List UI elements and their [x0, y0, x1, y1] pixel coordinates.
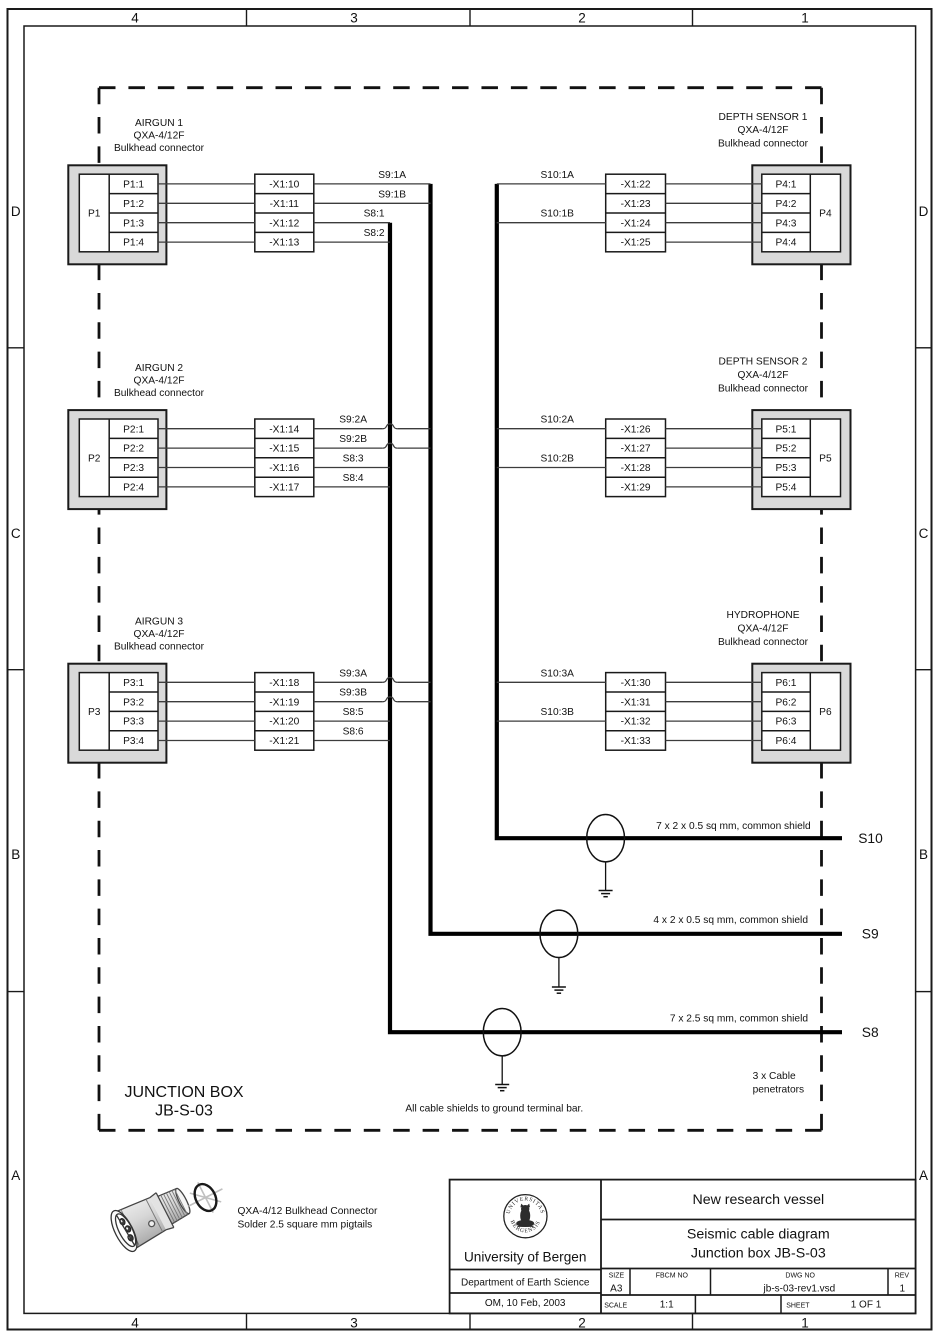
svg-text:3: 3 — [350, 1315, 358, 1330]
svg-text:DEPTH SENSOR 2: DEPTH SENSOR 2 — [719, 357, 808, 368]
svg-text:B: B — [919, 847, 928, 862]
svg-text:1: 1 — [900, 1283, 906, 1294]
svg-text:P3:4: P3:4 — [123, 736, 144, 747]
svg-text:4: 4 — [131, 1315, 139, 1330]
svg-text:S10:3B: S10:3B — [541, 707, 575, 718]
svg-text:P6:3: P6:3 — [776, 717, 797, 728]
svg-text:University of Bergen: University of Bergen — [464, 1250, 586, 1265]
svg-text:P6:4: P6:4 — [776, 736, 797, 747]
svg-text:S8:2: S8:2 — [364, 228, 385, 239]
svg-text:AIRGUN 1: AIRGUN 1 — [135, 118, 183, 129]
svg-text:D: D — [11, 204, 21, 219]
svg-text:P4: P4 — [819, 209, 832, 220]
svg-text:QXA-4/12F: QXA-4/12F — [134, 131, 185, 142]
svg-text:-X1:11: -X1:11 — [270, 199, 300, 210]
svg-text:-X1:25: -X1:25 — [621, 238, 651, 249]
svg-text:P4:2: P4:2 — [776, 199, 797, 210]
svg-text:1 OF 1: 1 OF 1 — [851, 1300, 882, 1311]
svg-text:QXA-4/12F: QXA-4/12F — [134, 375, 185, 386]
svg-text:QXA-4/12F: QXA-4/12F — [134, 629, 185, 640]
svg-text:S10:2A: S10:2A — [541, 415, 575, 426]
svg-text:HYDROPHONE: HYDROPHONE — [726, 610, 799, 621]
svg-text:P3: P3 — [88, 707, 101, 718]
svg-text:QXA-4/12F: QXA-4/12F — [738, 125, 789, 136]
svg-text:S10:2B: S10:2B — [541, 454, 575, 465]
svg-text:P6: P6 — [819, 707, 832, 718]
svg-text:S8:4: S8:4 — [343, 473, 364, 484]
svg-text:Bulkhead connector: Bulkhead connector — [718, 384, 809, 395]
svg-text:SHEET: SHEET — [786, 1303, 810, 1310]
svg-text:P4:1: P4:1 — [776, 180, 797, 191]
svg-text:DEPTH SENSOR 1: DEPTH SENSOR 1 — [719, 112, 808, 123]
svg-text:-X1:19: -X1:19 — [269, 697, 299, 708]
svg-text:P3:1: P3:1 — [123, 678, 144, 689]
svg-text:AIRGUN 2: AIRGUN 2 — [135, 363, 183, 374]
svg-text:-X1:31: -X1:31 — [621, 697, 651, 708]
svg-text:S10:1A: S10:1A — [541, 170, 575, 181]
svg-text:P2:3: P2:3 — [123, 463, 144, 474]
svg-text:P5:2: P5:2 — [776, 444, 797, 455]
svg-text:S9: S9 — [862, 927, 879, 942]
svg-text:P4:4: P4:4 — [776, 238, 797, 249]
svg-text:-X1:18: -X1:18 — [269, 678, 299, 689]
svg-text:-X1:22: -X1:22 — [621, 180, 651, 191]
svg-text:Bulkhead connector: Bulkhead connector — [718, 637, 809, 648]
svg-text:QXA-4/12F: QXA-4/12F — [738, 624, 789, 635]
svg-text:-X1:15: -X1:15 — [269, 444, 299, 455]
svg-text:-X1:14: -X1:14 — [269, 424, 299, 435]
svg-text:P1:3: P1:3 — [123, 218, 144, 229]
svg-text:-X1:21: -X1:21 — [269, 736, 299, 747]
svg-text:QXA-4/12F: QXA-4/12F — [738, 370, 789, 381]
svg-text:P2:4: P2:4 — [123, 483, 144, 494]
svg-text:Bulkhead connector: Bulkhead connector — [114, 388, 205, 399]
svg-text:-X1:12: -X1:12 — [269, 218, 299, 229]
svg-text:S9:2B: S9:2B — [339, 434, 367, 445]
svg-text:REV: REV — [895, 1272, 910, 1279]
svg-text:-X1:17: -X1:17 — [269, 483, 299, 494]
svg-text:S10:3A: S10:3A — [541, 668, 575, 679]
svg-text:penetrators: penetrators — [753, 1085, 805, 1096]
svg-text:-X1:24: -X1:24 — [621, 218, 651, 229]
svg-text:P3:2: P3:2 — [123, 697, 144, 708]
svg-text:New research vessel: New research vessel — [692, 1192, 824, 1208]
svg-text:P6:2: P6:2 — [776, 697, 797, 708]
svg-text:Bulkhead connector: Bulkhead connector — [718, 139, 809, 150]
svg-text:-X1:32: -X1:32 — [621, 717, 651, 728]
svg-text:C: C — [11, 526, 21, 541]
svg-text:P6:1: P6:1 — [776, 678, 797, 689]
svg-text:P3:3: P3:3 — [123, 717, 144, 728]
svg-text:7 x 2.5 sq mm, common shield: 7 x 2.5 sq mm, common shield — [670, 1013, 808, 1024]
svg-text:7 x 2 x 0.5 sq mm, common shie: 7 x 2 x 0.5 sq mm, common shield — [656, 821, 811, 832]
svg-text:S9:2A: S9:2A — [339, 415, 367, 426]
svg-text:Solder 2.5 square mm pigtails: Solder 2.5 square mm pigtails — [238, 1220, 373, 1231]
svg-text:2: 2 — [578, 11, 586, 26]
svg-text:P1:2: P1:2 — [123, 199, 144, 210]
svg-text:P1: P1 — [88, 209, 101, 220]
svg-text:Seismic cable diagram: Seismic cable diagram — [687, 1227, 830, 1243]
svg-text:4 x 2 x 0.5 sq mm, common shie: 4 x 2 x 0.5 sq mm, common shield — [653, 915, 808, 926]
svg-text:P1:4: P1:4 — [123, 238, 144, 249]
svg-text:P2:1: P2:1 — [123, 424, 144, 435]
svg-text:2: 2 — [578, 1315, 586, 1330]
svg-text:FBCM NO: FBCM NO — [656, 1272, 689, 1279]
svg-text:3 x Cable: 3 x Cable — [753, 1071, 796, 1082]
svg-text:1:1: 1:1 — [660, 1300, 674, 1311]
svg-text:S9:3B: S9:3B — [339, 688, 367, 699]
svg-text:A3: A3 — [610, 1283, 623, 1294]
svg-text:A: A — [11, 1168, 20, 1183]
svg-text:Junction box JB-S-03: Junction box JB-S-03 — [691, 1245, 826, 1261]
svg-text:4: 4 — [131, 11, 139, 26]
svg-text:S8:1: S8:1 — [364, 209, 385, 220]
svg-text:D: D — [919, 204, 929, 219]
svg-text:AIRGUN 3: AIRGUN 3 — [135, 617, 183, 628]
svg-text:A: A — [919, 1168, 928, 1183]
svg-text:Bulkhead connector: Bulkhead connector — [114, 143, 205, 154]
svg-text:JUNCTION BOX: JUNCTION BOX — [124, 1084, 243, 1101]
svg-text:P5:3: P5:3 — [776, 463, 797, 474]
svg-text:S8:6: S8:6 — [343, 727, 364, 738]
svg-text:P2: P2 — [88, 453, 101, 464]
svg-text:3: 3 — [350, 11, 358, 26]
svg-text:B: B — [11, 847, 20, 862]
svg-text:-X1:23: -X1:23 — [621, 199, 651, 210]
svg-text:-X1:13: -X1:13 — [269, 238, 299, 249]
svg-text:JB-S-03: JB-S-03 — [155, 1103, 213, 1120]
svg-text:-X1:27: -X1:27 — [621, 444, 651, 455]
svg-text:All cable shields to ground te: All cable shields to ground terminal bar… — [405, 1104, 583, 1115]
svg-text:QXA-4/12 Bulkhead Connector: QXA-4/12 Bulkhead Connector — [238, 1206, 378, 1217]
svg-text:SIZE: SIZE — [609, 1272, 625, 1279]
svg-text:-X1:28: -X1:28 — [621, 463, 651, 474]
svg-text:-X1:33: -X1:33 — [621, 736, 651, 747]
svg-text:S9:1B: S9:1B — [378, 189, 406, 200]
svg-text:S9:3A: S9:3A — [339, 668, 367, 679]
svg-text:-X1:16: -X1:16 — [269, 463, 299, 474]
svg-text:Bulkhead connector: Bulkhead connector — [114, 642, 205, 653]
svg-text:DWG NO: DWG NO — [785, 1272, 815, 1279]
svg-text:P4:3: P4:3 — [776, 218, 797, 229]
svg-text:P5: P5 — [819, 453, 832, 464]
svg-text:-X1:26: -X1:26 — [621, 424, 651, 435]
svg-text:1: 1 — [801, 11, 809, 26]
svg-text:jb-s-03-rev1.vsd: jb-s-03-rev1.vsd — [763, 1283, 836, 1294]
svg-text:S8:5: S8:5 — [343, 707, 364, 718]
svg-text:S8:3: S8:3 — [343, 454, 364, 465]
svg-text:C: C — [919, 526, 929, 541]
svg-text:1: 1 — [801, 1315, 809, 1330]
svg-text:S10: S10 — [858, 831, 883, 846]
svg-text:P5:1: P5:1 — [776, 424, 797, 435]
svg-text:SCALE: SCALE — [604, 1303, 627, 1310]
svg-text:P2:2: P2:2 — [123, 444, 144, 455]
svg-text:-X1:29: -X1:29 — [621, 483, 651, 494]
svg-text:P1:1: P1:1 — [123, 180, 144, 191]
svg-text:S8: S8 — [862, 1025, 879, 1040]
svg-text:OM, 10 Feb, 2003: OM, 10 Feb, 2003 — [485, 1298, 566, 1309]
svg-text:S9:1A: S9:1A — [378, 170, 406, 181]
svg-text:S10:1B: S10:1B — [541, 209, 575, 220]
svg-text:Department of Earth Science: Department of Earth Science — [461, 1278, 590, 1289]
svg-text:-X1:20: -X1:20 — [269, 717, 299, 728]
svg-text:P5:4: P5:4 — [776, 483, 797, 494]
svg-text:-X1:10: -X1:10 — [269, 180, 299, 191]
svg-text:-X1:30: -X1:30 — [621, 678, 651, 689]
